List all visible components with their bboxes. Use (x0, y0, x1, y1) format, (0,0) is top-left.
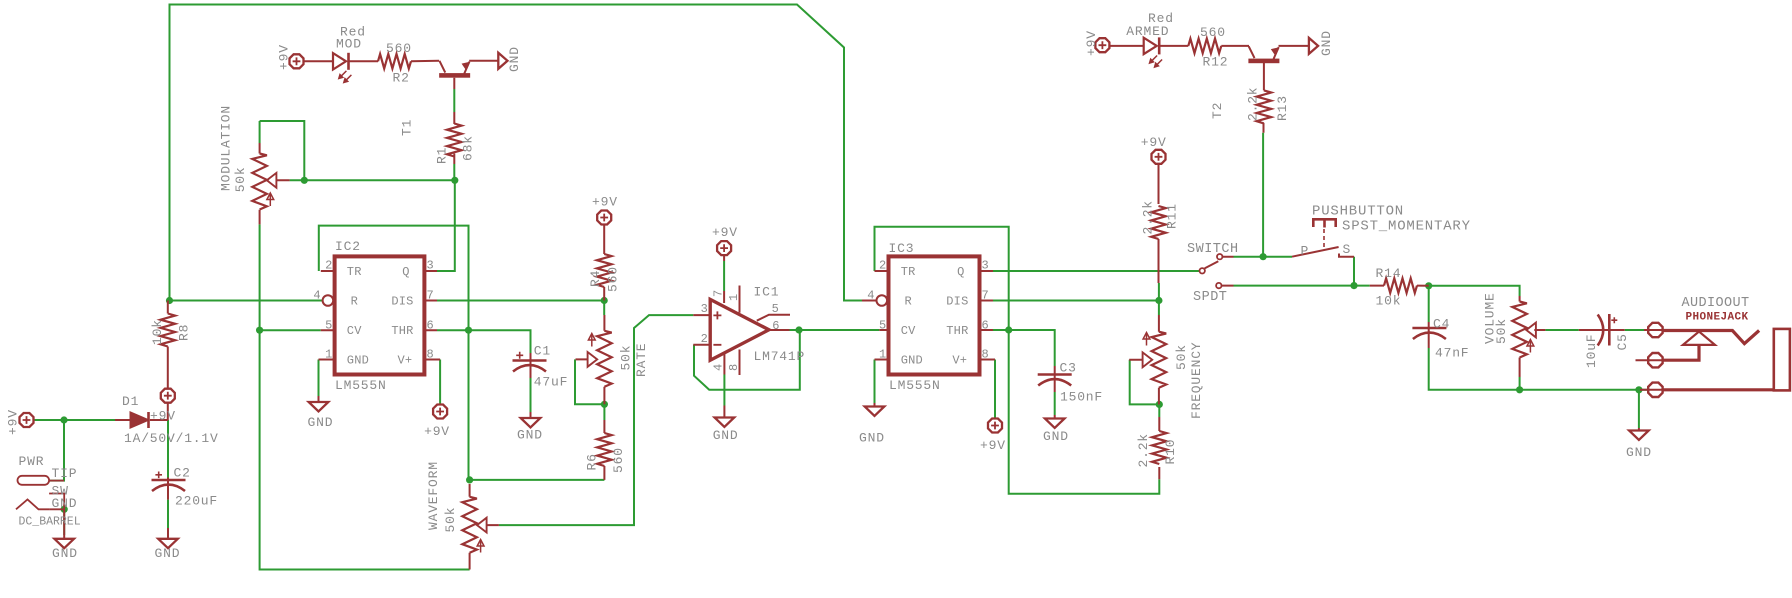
svg-text:GND: GND (1626, 445, 1652, 460)
svg-text:1A/50V/1.1V: 1A/50V/1.1V (124, 431, 219, 446)
svg-text:3: 3 (427, 259, 434, 273)
svg-text:IC1: IC1 (754, 285, 780, 300)
svg-text:R: R (905, 295, 912, 309)
svg-text:560: 560 (611, 447, 626, 473)
svg-text:R: R (351, 295, 358, 309)
svg-text:50k: 50k (443, 507, 458, 533)
svg-text:10k: 10k (1376, 294, 1402, 309)
svg-text:C4: C4 (1433, 317, 1450, 332)
svg-text:PWR: PWR (19, 454, 45, 469)
svg-text:SPDT: SPDT (1193, 290, 1227, 305)
svg-text:GND: GND (52, 546, 78, 561)
svg-text:+9V: +9V (1084, 30, 1099, 56)
svg-text:1: 1 (727, 294, 741, 301)
svg-text:R4: R4 (588, 270, 603, 287)
svg-text:IC2: IC2 (335, 239, 361, 254)
svg-text:ARMED: ARMED (1126, 24, 1169, 39)
svg-text:MOD: MOD (336, 37, 362, 52)
svg-text:MODULATION: MODULATION (218, 105, 233, 191)
svg-text:R14: R14 (1376, 266, 1402, 281)
svg-text:+9V: +9V (6, 409, 21, 435)
svg-text:PUSHBUTTON: PUSHBUTTON (1312, 204, 1404, 220)
svg-text:GND: GND (1319, 30, 1334, 56)
svg-text:SPST_MOMENTARY: SPST_MOMENTARY (1342, 219, 1471, 235)
svg-text:T2: T2 (1210, 102, 1225, 119)
svg-text:+9V: +9V (150, 409, 176, 424)
svg-text:7: 7 (712, 290, 726, 297)
svg-text:GND: GND (713, 428, 739, 443)
svg-text:10uF: 10uF (1584, 334, 1599, 368)
svg-text:R11: R11 (1165, 203, 1180, 229)
svg-text:2: 2 (701, 332, 708, 346)
svg-text:P: P (1301, 244, 1310, 259)
svg-text:R8: R8 (177, 324, 192, 341)
svg-text:560: 560 (606, 266, 621, 292)
svg-text:CV: CV (901, 324, 916, 338)
svg-text:GND: GND (517, 428, 543, 443)
svg-text:THR: THR (391, 324, 413, 338)
svg-text:R2: R2 (393, 71, 410, 86)
svg-text:THR: THR (946, 324, 968, 338)
svg-text:C5: C5 (1615, 333, 1630, 350)
svg-text:GND: GND (347, 354, 369, 368)
svg-text:7: 7 (982, 289, 989, 303)
svg-text:+9V: +9V (712, 225, 738, 240)
svg-text:8: 8 (427, 348, 434, 362)
svg-text:V+: V+ (952, 354, 967, 368)
svg-text:AUDIOOUT: AUDIOOUT (1682, 296, 1750, 311)
svg-text:D1: D1 (122, 394, 139, 409)
svg-text:V+: V+ (397, 354, 412, 368)
svg-text:5: 5 (772, 302, 779, 316)
svg-text:+9V: +9V (277, 44, 292, 70)
svg-text:IC3: IC3 (889, 241, 915, 256)
svg-text:8: 8 (982, 348, 989, 362)
svg-text:R6: R6 (585, 453, 600, 470)
svg-text:LM741P: LM741P (754, 349, 806, 364)
svg-text:C2: C2 (174, 466, 191, 481)
svg-text:50k: 50k (1174, 344, 1189, 370)
svg-text:S: S (1343, 242, 1352, 257)
svg-text:TR: TR (901, 265, 916, 279)
svg-text:TR: TR (347, 265, 362, 279)
svg-text:FREQUENCY: FREQUENCY (1189, 342, 1204, 419)
svg-text:PHONEJACK: PHONEJACK (1686, 312, 1749, 324)
svg-text:GND: GND (1043, 429, 1069, 444)
svg-text:LM555N: LM555N (889, 378, 941, 393)
svg-text:SWITCH: SWITCH (1187, 242, 1239, 257)
svg-text:GND: GND (308, 415, 334, 430)
svg-text:LM555N: LM555N (335, 378, 387, 393)
svg-text:47uF: 47uF (534, 375, 568, 390)
svg-text:R1: R1 (435, 147, 450, 164)
svg-text:10k: 10k (150, 319, 165, 345)
svg-text:50k: 50k (619, 345, 634, 371)
svg-text:2: 2 (325, 259, 332, 273)
svg-text:GND: GND (507, 46, 522, 72)
svg-text:DIS: DIS (391, 295, 413, 309)
svg-text:R12: R12 (1203, 55, 1229, 70)
svg-text:+9V: +9V (980, 438, 1006, 453)
svg-text:GND: GND (155, 546, 181, 561)
svg-text:2: 2 (879, 259, 886, 273)
svg-text:6: 6 (427, 318, 434, 332)
svg-text:CV: CV (347, 324, 362, 338)
svg-text:R10: R10 (1163, 439, 1178, 465)
svg-text:50k: 50k (233, 166, 248, 192)
svg-text:T1: T1 (400, 119, 415, 136)
svg-text:C1: C1 (534, 344, 551, 359)
svg-text:RATE: RATE (634, 343, 649, 377)
svg-text:4: 4 (313, 289, 320, 303)
svg-text:TIP: TIP (52, 466, 78, 481)
svg-text:4: 4 (711, 364, 725, 371)
svg-text:+9V: +9V (592, 195, 618, 210)
svg-text:Q: Q (957, 265, 964, 279)
svg-text:3: 3 (982, 259, 989, 273)
svg-text:8: 8 (727, 364, 741, 371)
svg-text:4: 4 (867, 289, 874, 303)
svg-text:7: 7 (427, 289, 434, 303)
svg-text:2.2k: 2.2k (1136, 433, 1151, 467)
svg-text:C3: C3 (1060, 361, 1077, 376)
svg-text:6: 6 (982, 318, 989, 332)
svg-text:WAVEFORM: WAVEFORM (426, 461, 441, 530)
svg-text:2.2k: 2.2k (1246, 87, 1261, 121)
svg-text:6: 6 (772, 319, 779, 333)
svg-text:+9V: +9V (1141, 135, 1167, 150)
svg-text:150nF: 150nF (1060, 390, 1103, 405)
svg-text:1: 1 (325, 348, 332, 362)
svg-text:DC_BARREL: DC_BARREL (19, 516, 81, 529)
svg-text:5: 5 (879, 318, 886, 332)
svg-text:GND: GND (52, 496, 78, 511)
svg-text:+9V: +9V (424, 424, 450, 439)
svg-text:GND: GND (859, 431, 885, 446)
svg-text:68k: 68k (461, 135, 476, 161)
svg-text:47nF: 47nF (1435, 346, 1469, 361)
svg-text:R13: R13 (1275, 95, 1290, 121)
svg-text:DIS: DIS (946, 295, 968, 309)
svg-text:1: 1 (879, 348, 886, 362)
svg-text:3: 3 (701, 302, 708, 316)
svg-text:50k: 50k (1494, 318, 1509, 344)
svg-text:Q: Q (402, 265, 409, 279)
svg-text:560: 560 (1200, 25, 1226, 40)
svg-text:GND: GND (901, 354, 923, 368)
svg-text:5: 5 (325, 318, 332, 332)
svg-text:2.2k: 2.2k (1141, 200, 1156, 234)
svg-text:560: 560 (386, 41, 412, 56)
svg-text:220uF: 220uF (175, 494, 218, 509)
